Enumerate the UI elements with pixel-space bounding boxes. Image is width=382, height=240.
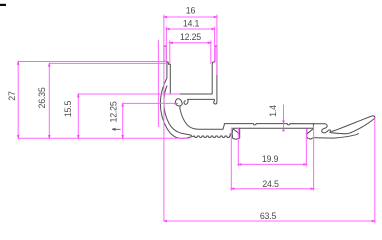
svg-text:63.5: 63.5 xyxy=(260,211,277,221)
svg-text:27: 27 xyxy=(7,91,17,101)
svg-text:16: 16 xyxy=(186,6,196,16)
svg-text:24.5: 24.5 xyxy=(262,179,279,189)
svg-text:12.25: 12.25 xyxy=(109,101,119,122)
svg-text:19.9: 19.9 xyxy=(262,154,279,164)
svg-text:14.1: 14.1 xyxy=(183,18,200,28)
svg-text:1.4: 1.4 xyxy=(268,105,278,117)
svg-text:12.25: 12.25 xyxy=(180,32,201,42)
svg-text:15.5: 15.5 xyxy=(63,101,73,118)
svg-text:26.35: 26.35 xyxy=(37,87,47,108)
